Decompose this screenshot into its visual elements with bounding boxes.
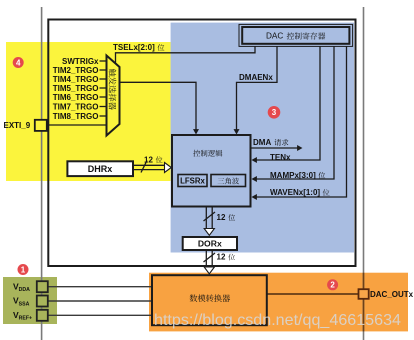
LFSRx box [178,175,207,187]
right page rule [363,7,365,340]
VDDA pin square [37,281,48,292]
bus DORx to DAC (12 bit) [205,250,207,268]
orange DAC region [149,273,408,332]
left page rule [41,7,43,340]
svg-text:12: 12 [217,253,226,262]
wire VREF+ [48,314,152,316]
svg-text:12: 12 [217,213,226,222]
EXTI_9 pin square [35,120,47,131]
DAC converter box [152,275,267,325]
wire mux output to control logic [120,82,197,131]
svg-text:MAMPx[3:0]: MAMPx[3:0] [270,171,316,180]
svg-text:2: 2 [330,281,335,290]
svg-text:TSELx[2:0]: TSELx[2:0] [113,43,155,52]
wire TENx [255,47,320,161]
DAC control register box [239,24,353,46]
svg-text:TIM4_TRGO: TIM4_TRGO [53,75,99,84]
svg-text:4: 4 [16,58,21,67]
svg-text:DORx: DORx [198,239,222,249]
svg-text:DMAENx: DMAENx [239,73,273,82]
wire VSSA [48,300,152,302]
wire DMAENx register to control logic [237,47,278,131]
bus DHRx to control logic (12 bit) [133,164,165,166]
svg-text:SWTRIGx: SWTRIGx [62,57,99,66]
bus control logic to DORx (12 bit) [205,207,207,230]
DHRx box [67,161,133,176]
svg-text:TENx: TENx [270,153,291,162]
DAC block outer frame [48,20,355,267]
trigger mux trapezoid [107,56,120,136]
VSSA pin square [37,296,48,307]
yellow trigger region [6,42,171,181]
triangle-wave box [211,175,246,187]
right page rule over orange (tinted) [363,273,365,332]
marker 4 [13,57,24,68]
svg-text:WAVENx[1:0]: WAVENx[1:0] [270,188,320,197]
wire DAC output [267,293,359,295]
marker 1 [18,264,29,275]
svg-text:DMA: DMA [253,138,271,147]
wire TSELx from register to mux [116,47,256,63]
marker 3 [268,106,281,119]
green supply region [3,277,57,324]
VREF+ pin square [37,310,48,321]
DAC_OUTx pin square [359,289,369,299]
svg-text:DAC_OUTx: DAC_OUTx [370,290,414,299]
wire WAVENx [255,47,347,198]
svg-text:TIM5_TRGO: TIM5_TRGO [53,84,99,93]
control logic box U-logic [172,135,251,207]
svg-text:TIM6_TRGO: TIM6_TRGO [53,93,99,102]
svg-text:TIM2_TRGO: TIM2_TRGO [53,66,99,75]
svg-text:3: 3 [272,108,277,117]
svg-text:DAC: DAC [266,32,283,41]
svg-text:https://blog.csdn.net/qq_46615: https://blog.csdn.net/qq_46615634 [154,311,401,329]
wire DMA request out [251,147,299,149]
svg-text:1: 1 [21,265,26,274]
svg-text:DHRx: DHRx [88,164,113,174]
wire EXTI_9 to mux [47,124,107,126]
blue register/logic region [171,23,354,253]
marker 2 [327,279,338,290]
wire MAMPx [255,47,334,180]
svg-text:LFSRx: LFSRx [180,177,205,186]
svg-text:12: 12 [144,155,153,164]
wire VDDA [48,286,152,288]
DORx box [183,237,237,250]
svg-text:EXTI_9: EXTI_9 [4,121,31,130]
mux input wires [100,60,107,62]
svg-text:TIM8_TRGO: TIM8_TRGO [53,112,99,121]
svg-text:TIM7_TRGO: TIM7_TRGO [53,103,99,112]
